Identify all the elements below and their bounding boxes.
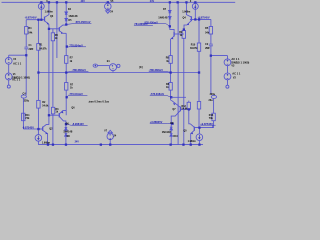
svg-text:D10: D10 [173,135,178,138]
svg-text:-770.031mV: -770.031mV [69,92,84,96]
svg-text:220u: 220u [210,93,216,96]
svg-text:-8.87545V: -8.87545V [25,16,37,20]
svg-text:2MF: 2MF [29,48,34,51]
svg-text:1N4148: 1N4148 [158,15,168,19]
svg-text:AC 1 1: AC 1 1 [12,78,21,82]
svg-text:R10: R10 [191,43,196,46]
svg-text:1.969m: 1.969m [45,11,53,14]
svg-text:AC 1 1: AC 1 1 [232,72,241,76]
svg-text:1N4148: 1N4148 [63,130,73,134]
svg-text:84.87k: 84.87k [39,48,47,51]
svg-text:-8.87545V: -8.87545V [198,16,210,20]
svg-text:1.969m: 1.969m [182,11,190,14]
svg-text:[E]: [E] [139,66,142,69]
svg-text:-8.96842V: -8.96842V [72,122,84,126]
svg-text:784.865mV: 784.865mV [134,22,148,26]
svg-text:-786.286mV: -786.286mV [149,68,164,72]
svg-text:1N4148: 1N4148 [68,14,78,18]
svg-text:1N4148: 1N4148 [162,130,172,134]
svg-text:+3.88635V: +3.88635V [150,120,163,124]
svg-text:24V: 24V [81,0,86,3]
svg-text:73k: 73k [25,117,30,120]
svg-text:2MF: 2MF [205,47,210,50]
svg-text:-9.87545V: -9.87545V [22,126,34,130]
svg-text:-778.308mV: -778.308mV [150,92,165,96]
svg-text:220u: 220u [24,99,30,102]
svg-text:1.969m: 1.969m [188,140,196,143]
svg-text:26u: 26u [209,99,214,102]
svg-text:24V: 24V [150,0,155,3]
svg-text:54k: 54k [205,32,210,35]
svg-text:+9.87545V: +9.87545V [200,122,213,126]
svg-text:1.969m: 1.969m [42,141,50,144]
svg-text:24V: 24V [75,140,80,143]
svg-text:54k: 54k [28,31,33,34]
svg-text:AC 1 1: AC 1 1 [13,62,22,66]
svg-text:-786.286mV: -786.286mV [72,68,87,72]
svg-text:876.4567mV: 876.4567mV [76,20,91,24]
svg-text:778.854mV: 778.854mV [69,43,83,47]
svg-text:84.87k: 84.87k [190,47,198,50]
svg-text:.tran 0 2ms 0 2us: .tran 0 2ms 0 2us [88,100,110,104]
svg-text:54.6k: 54.6k [182,107,189,110]
svg-text:54.6k: 54.6k [42,105,49,108]
svg-text:73k: 73k [209,117,214,120]
